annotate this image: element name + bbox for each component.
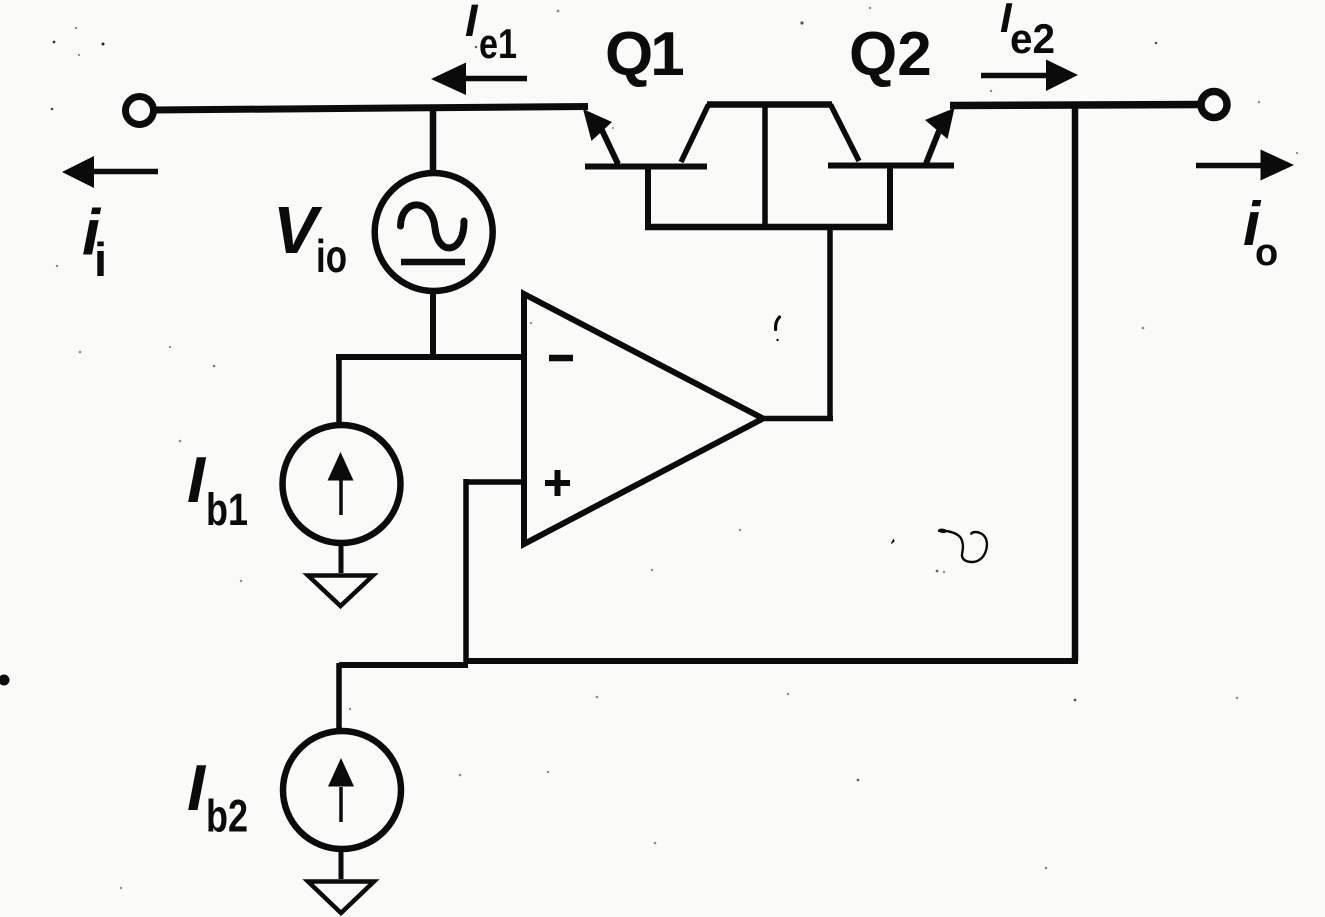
svg-text:io: io	[316, 230, 347, 282]
svg-text:I: I	[465, 0, 479, 46]
svg-text:b2: b2	[206, 791, 248, 842]
svg-text:i: i	[94, 233, 107, 286]
svg-text:Q1: Q1	[605, 20, 683, 89]
svg-text:I: I	[187, 751, 207, 824]
svg-text:Q2: Q2	[849, 20, 932, 89]
svg-text:o: o	[1255, 232, 1278, 274]
svg-text:I: I	[187, 443, 207, 516]
svg-text:e2: e2	[1010, 15, 1055, 62]
svg-text:b1: b1	[206, 484, 248, 535]
svg-text:e1: e1	[479, 20, 517, 67]
